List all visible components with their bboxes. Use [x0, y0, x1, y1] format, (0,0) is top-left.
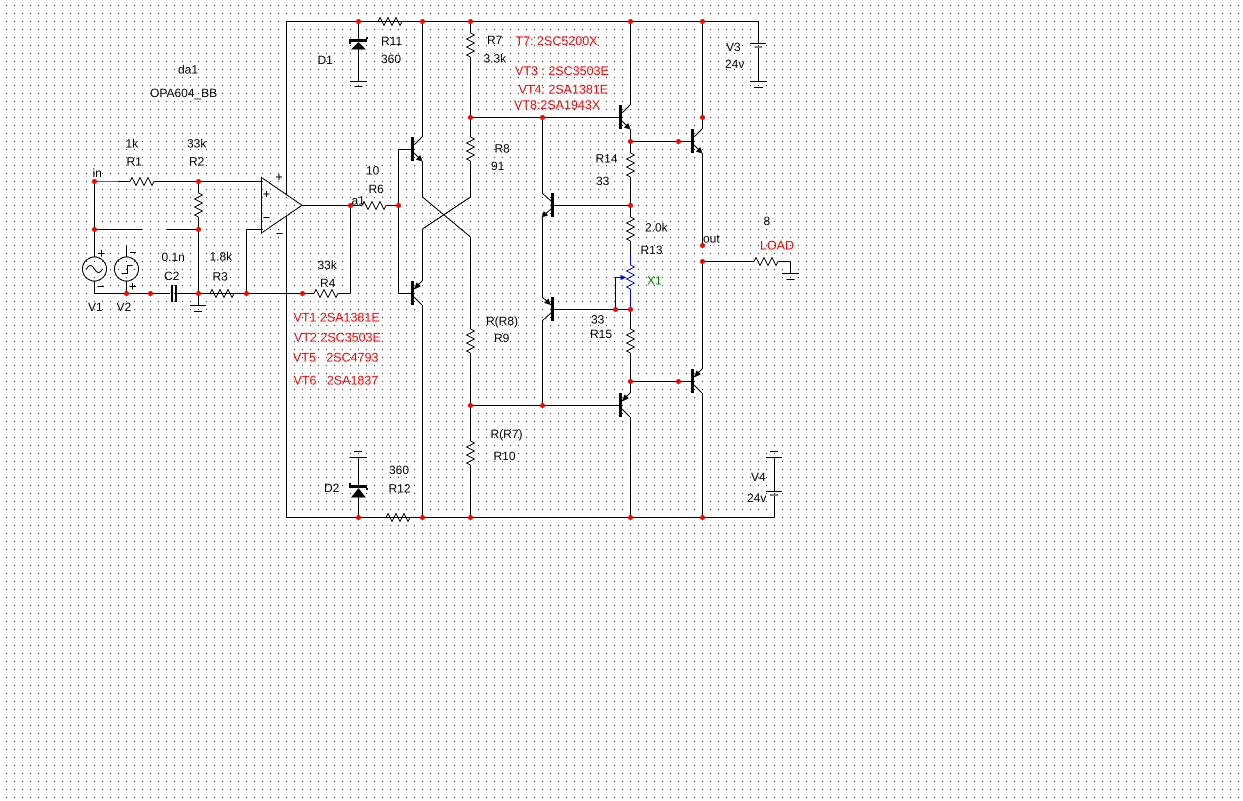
node R15/Q7: [628, 379, 633, 384]
node top rail R7: [468, 19, 473, 24]
potentiometer X1 (blue): [615, 253, 662, 310]
wire base column x398: [398, 149, 400, 293]
resistor R1 1k: [118, 137, 198, 186]
node top rail Q4: [700, 19, 705, 24]
svg-text:1.8k: 1.8k: [210, 250, 234, 264]
svg-text:VT5 2SC4793: VT5 2SC4793: [293, 351, 379, 365]
svg-text:T7: 2SC5200X: T7: 2SC5200X: [516, 34, 599, 48]
wire diagonal cross B: [423, 197, 471, 229]
svg-text:in: in: [93, 166, 102, 180]
node C2 left: [148, 291, 153, 296]
resistor R3 1.8k: [198, 250, 246, 298]
node top rail D1: [356, 19, 361, 24]
svg-text:OPA604_BB: OPA604_BB: [150, 86, 217, 100]
diode D2 zener: [324, 452, 368, 518]
resistor R14 33: [596, 141, 635, 205]
resistor R12 360: [358, 463, 422, 522]
node R2 bottom: [196, 227, 201, 232]
node R3 right: [244, 291, 249, 296]
svg-text:R11: R11: [381, 34, 402, 48]
svg-text:V2: V2: [117, 300, 132, 314]
svg-text:LOAD: LOAD: [760, 239, 794, 253]
wire node381 row: [630, 381, 691, 383]
node R6/Q1 base: [396, 203, 401, 208]
resistor R15 33: [590, 309, 635, 381]
svg-text:VT8:2SA1943X: VT8:2SA1943X: [514, 98, 601, 112]
svg-text:R14: R14: [596, 152, 618, 166]
node a1: [348, 203, 353, 208]
ground at LOAD: [782, 274, 799, 280]
node Q8 base: [676, 379, 681, 384]
svg-text:33k: 33k: [187, 137, 207, 151]
resistor R8 91: [467, 117, 511, 197]
svg-text:VT6 2SA1837: VT6 2SA1837: [294, 374, 379, 388]
node C2 right: [196, 291, 201, 296]
node R1/R2: [196, 179, 201, 184]
wire top rail: [286, 21, 758, 23]
transistor Q8 (lower right PNP): [691, 261, 703, 517]
resistor R4 33k: [302, 205, 351, 298]
svg-text:0.1n: 0.1n: [162, 250, 185, 264]
svg-text:24v: 24v: [725, 57, 744, 71]
svg-text:V4: V4: [751, 470, 766, 484]
diode D1 zener: [318, 22, 369, 81]
svg-text:91: 91: [491, 159, 505, 173]
svg-text:R10: R10: [494, 449, 516, 463]
node Q5 collector: [540, 115, 545, 120]
capacitor C2 0.1n: [162, 250, 303, 302]
svg-text:R6: R6: [369, 182, 385, 196]
wire left border upper (to op-amp edge): [286, 21, 288, 194]
battery V3 24v: [725, 22, 766, 82]
node out lower: [700, 259, 705, 264]
wire left border lower (from op-amp edge): [286, 217, 288, 518]
node V2 bottom: [124, 291, 129, 296]
node V1 top: [92, 227, 97, 232]
svg-text:C2: C2: [164, 269, 180, 283]
node R7/R8: [468, 115, 473, 120]
svg-text:33k: 33k: [318, 258, 338, 272]
node bottom rail R10: [468, 515, 473, 520]
wire green in segment: [95, 181, 118, 183]
svg-text:V1: V1: [88, 300, 103, 314]
wire diagonal cross A: [423, 197, 471, 237]
node R14/R13: [628, 203, 633, 208]
svg-text:VT2 2SC3503E: VT2 2SC3503E: [294, 331, 381, 345]
wire node117 to Q3 base: [470, 117, 619, 119]
node bottom rail Q7: [628, 515, 633, 520]
svg-text:33: 33: [596, 174, 610, 188]
svg-text:VT3 : 2SC3503E: VT3 : 2SC3503E: [515, 64, 609, 78]
svg-text:D1: D1: [318, 53, 334, 67]
svg-text:D2: D2: [324, 481, 340, 495]
node Q4 collector col: [700, 115, 705, 120]
transistor Q1 (VT1 upper of cross pair, NPN): [398, 22, 423, 198]
svg-text:R13: R13: [641, 243, 663, 257]
node R4 left: [300, 291, 305, 296]
svg-text:R2: R2: [189, 155, 205, 169]
transistor Q6 (middle lower, mirrored PNP): [542, 297, 615, 405]
node Q4 base: [676, 139, 681, 144]
svg-text:da1: da1: [178, 63, 198, 77]
resistor R2 33k: [187, 137, 207, 294]
svg-text:10: 10: [366, 164, 380, 178]
svg-text:VT4: 2SA1381E: VT4: 2SA1381E: [519, 83, 609, 97]
ground under R2/C2 node: [190, 293, 206, 312]
svg-text:V3: V3: [726, 40, 741, 54]
wire minus row segments: [94, 229, 142, 231]
svg-text:R4: R4: [320, 276, 336, 290]
resistor R9 R(R8): [467, 237, 519, 405]
node X1 bottom: [628, 307, 633, 312]
node in: [92, 179, 97, 184]
svg-text:8: 8: [764, 214, 771, 228]
svg-text:R7: R7: [487, 33, 503, 47]
svg-text:R3: R3: [213, 270, 229, 284]
svg-text:R12: R12: [389, 482, 411, 496]
transistor Q2 (VT2 lower of cross pair, PNP): [398, 229, 423, 517]
svg-text:360: 360: [389, 463, 409, 477]
svg-text:R9: R9: [494, 331, 510, 345]
resistor R13 2.0k: [627, 205, 669, 257]
node bottom rail Q8: [700, 515, 705, 520]
svg-text:R1: R1: [127, 155, 143, 169]
transistor Q4 (top right NPN): [630, 22, 703, 246]
node out upper: [700, 243, 705, 248]
svg-text:out: out: [703, 232, 720, 246]
svg-text:33: 33: [591, 313, 605, 327]
node top rail Q3: [628, 19, 633, 24]
source V2 pulse: [115, 245, 139, 314]
node bottom rail D2: [356, 515, 361, 520]
svg-text:360: 360: [381, 52, 401, 66]
svg-text:R(R7): R(R7): [491, 427, 523, 441]
ground under V3: [750, 82, 767, 88]
svg-text:24v: 24v: [747, 491, 766, 505]
node R9/R10: [468, 403, 473, 408]
resistor R10 R(R7): [467, 405, 523, 517]
svg-text:2.0k: 2.0k: [645, 221, 669, 235]
ground under D1: [350, 82, 367, 87]
svg-text:X1: X1: [647, 274, 662, 288]
transistor Q3 (top middle NPN): [619, 22, 631, 142]
wire bottom rail: [286, 517, 774, 519]
transistor Q7 (lower middle PNP): [542, 381, 631, 517]
svg-text:3.3k: 3.3k: [484, 52, 508, 66]
node top rail R11/Q1: [420, 19, 425, 24]
svg-text:1k: 1k: [126, 137, 140, 151]
svg-text:R15: R15: [590, 327, 612, 341]
resistor LOAD 8: [702, 214, 794, 273]
node X1 wiper: [613, 307, 618, 312]
node Q3 emitter/R14: [628, 139, 633, 144]
resistor R11 360: [358, 18, 422, 67]
resistor R7 3.3k: [467, 21, 508, 117]
battery V4 24v: [747, 452, 782, 518]
node Q6 collector: [540, 403, 545, 408]
wire bottom-left rail: [94, 293, 170, 295]
svg-text:R8: R8: [495, 142, 511, 156]
transistor Q5 (middle upper, mirrored NPN): [542, 117, 631, 297]
op-amp U1 OPA604_BB: [150, 63, 350, 294]
wire node405 row: [470, 405, 542, 407]
svg-text:VT1 2SA1381E: VT1 2SA1381E: [294, 311, 380, 325]
resistor R6 10: [350, 164, 398, 210]
svg-text:R(R8): R(R8): [486, 314, 518, 328]
node bottom rail R12: [420, 515, 425, 520]
source V1 sine: [83, 181, 107, 314]
junction nodes (red dots): [92, 19, 705, 520]
